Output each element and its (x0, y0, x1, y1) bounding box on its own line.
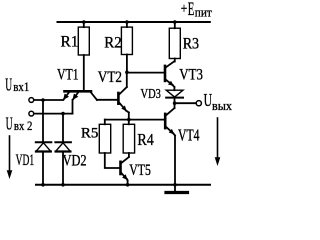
node junction R4/VT2e/VT4b (127, 118, 131, 122)
svg-text:R4: R4 (137, 130, 153, 149)
label U_vx2 (6, 113, 33, 133)
svg-text:вых: вых (212, 98, 232, 113)
svg-text:R1: R1 (61, 33, 79, 50)
wire VT4 collector up (174, 103, 176, 108)
svg-text:вх 2: вх 2 (14, 118, 33, 133)
wire input 1 (34, 99, 63, 101)
wire top supply rail (58, 21, 210, 23)
node junction VT5e/rail (126, 183, 130, 187)
node junction VD3/VT4 collector/output (173, 101, 177, 105)
svg-text:пит: пит (195, 5, 212, 20)
svg-text:VT5: VT5 (129, 162, 151, 179)
wire VT4 emitter down (174, 136, 176, 185)
diode VD1 (36, 100, 52, 185)
svg-text:VT3: VT3 (179, 66, 203, 83)
node junction R2/rail (125, 20, 129, 24)
wire to VT3 base (127, 72, 165, 74)
input voltage arrow left (7, 136, 13, 179)
resistor R2 (121, 22, 132, 72)
wire input 2 (34, 113, 73, 115)
wire to output terminal (175, 102, 196, 104)
wire R5 bottom to VT5 base (105, 153, 121, 168)
diode VD3 (166, 90, 183, 103)
terminal U_vx1 (29, 98, 34, 103)
svg-text:R3: R3 (183, 35, 199, 52)
transistor VT3 (165, 62, 174, 88)
label U_vyh (204, 90, 233, 113)
label U_vx1 (5, 75, 29, 95)
terminal U_vx2 (29, 111, 34, 116)
node junction VD2/rail (61, 183, 65, 187)
resistor R1 (78, 22, 89, 91)
svg-text:R2: R2 (104, 35, 121, 52)
wire VT5 emitter to rail (127, 181, 129, 185)
svg-text:VT2: VT2 (98, 69, 122, 86)
svg-text:VT4: VT4 (178, 125, 200, 144)
svg-text:VT1: VT1 (57, 66, 79, 83)
node junction input2/VD2 (61, 112, 65, 116)
wire R4 bottom to VT5 collector (128, 153, 130, 157)
resistor R3 (169, 22, 180, 62)
terminal U_vyh (196, 101, 201, 106)
svg-text:VD2: VD2 (63, 152, 87, 169)
svg-text:R5: R5 (81, 126, 99, 142)
transistor VT1 (dual-emitter) (63, 91, 97, 100)
svg-text:вх1: вх1 (13, 79, 29, 94)
output voltage arrow right (215, 118, 221, 166)
wire R4 top lead (128, 120, 130, 125)
resistor R4 (123, 124, 134, 153)
svg-text:U: U (204, 90, 213, 110)
node junction VT4e/ground (173, 183, 177, 187)
node junction input1/VD1 (41, 98, 45, 102)
label +E pit (181, 0, 212, 20)
svg-text:+: + (181, 1, 188, 17)
wire bottom rail (36, 184, 210, 186)
node junction R2/VT2/VT3 base (125, 71, 129, 75)
wire VT2 emitter / R5 / R4 / VT4 base (105, 119, 165, 121)
wire VT1 emitter2 down (72, 100, 74, 114)
svg-text:U: U (5, 75, 12, 95)
transistor VT4 (165, 108, 175, 136)
wire VT2 emitter down (128, 113, 130, 120)
node junction R3/rail (173, 20, 177, 24)
svg-text:VD1: VD1 (16, 152, 34, 169)
diode VD2 (55, 114, 71, 185)
resistor R5 (99, 124, 110, 153)
wire VT1 collector to VT2 base (97, 99, 118, 101)
transistor VT2 (118, 87, 128, 113)
node junction VD1/rail (41, 183, 45, 187)
svg-text:E: E (188, 0, 195, 20)
node junction R1/rail (82, 20, 86, 24)
svg-text:VD3: VD3 (141, 87, 161, 102)
svg-text:U: U (6, 113, 13, 133)
wire VT3 emitter to VD3 (173, 87, 175, 90)
wire VT2 collector up to R2 (126, 72, 128, 87)
transistor VT5 (121, 157, 129, 181)
wire bend down to R5 (104, 120, 106, 125)
ground (166, 185, 188, 193)
